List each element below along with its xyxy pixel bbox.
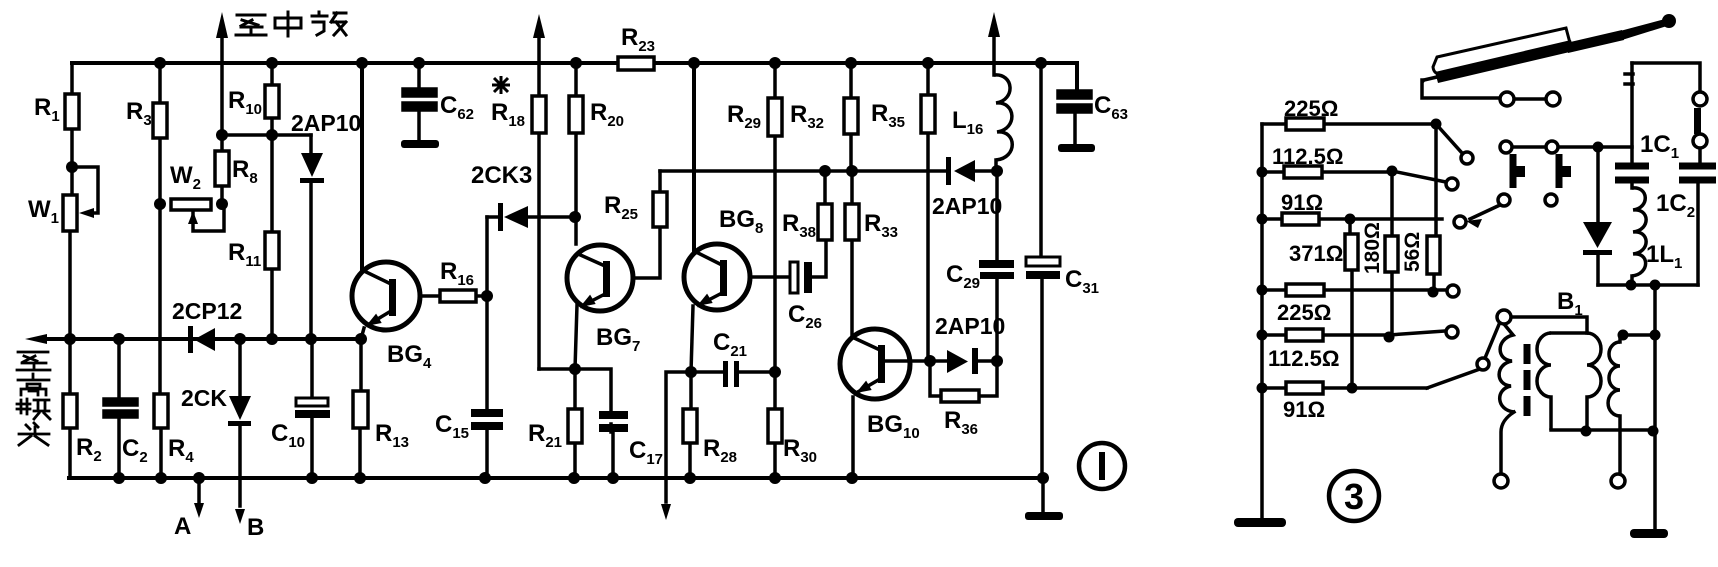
wire attenuator row2 (1262, 171, 1446, 182)
svg-text:225Ω: 225Ω (1277, 300, 1331, 325)
svg-text:B: B (247, 514, 264, 541)
wire 371ohm branch x=1352 (1350, 219, 1352, 388)
wire R1-W1-R2 branch x=71 (70, 63, 72, 478)
junction dots bias line (819, 165, 831, 177)
svg-text:2CP12: 2CP12 (172, 298, 242, 324)
arrow to RF head (mid left) (25, 334, 47, 344)
wire BG8 base to C26 (752, 275, 790, 279)
transformer B1 core (1524, 344, 1531, 416)
capacitor C17 (599, 411, 628, 432)
chinese text: to IF amplifier (zhi zhong fang) (236, 15, 266, 35)
antenna rod mid segment (1566, 30, 1624, 53)
wire BG10 base lead (886, 359, 930, 363)
resistor 225ohm row1 (1286, 118, 1324, 130)
inductor L16 (994, 75, 1012, 160)
wire tank bottom y=285 (1598, 283, 1698, 287)
resistor R29 (768, 98, 782, 136)
arrowhead W2 wiper (188, 211, 198, 224)
resistor R36 (941, 390, 979, 402)
resistor 91ohm row6 (1286, 382, 1323, 394)
wire attenuator row5 (1262, 331, 1445, 335)
capacitor C63 (1058, 91, 1091, 144)
wire bottom ground rail (69, 476, 1043, 480)
open terminal row1 (1461, 152, 1473, 164)
wire node R10-R11 tap y=135 (222, 133, 311, 137)
resistor R32 (844, 98, 858, 134)
wire R10 R11 chain x=272 (270, 63, 274, 339)
diode 2CK (vertical) (229, 396, 251, 420)
svg-text:91Ω: 91Ω (1281, 190, 1323, 215)
resistor R1 (65, 94, 79, 129)
junction dots R10 tap (216, 129, 228, 141)
wire R33 to BG10 collector x=852 (850, 171, 854, 336)
svg-text:371Ω: 371Ω (1289, 241, 1343, 266)
junction dot diode3 top (1593, 142, 1604, 153)
resistor R10 (265, 85, 279, 118)
wire ground stem right (1041, 478, 1045, 514)
wire 2AP10a diode to C10 branch x=312 (311, 135, 312, 478)
wire R36 parallel loop (930, 361, 997, 396)
transistor BG8 (684, 244, 750, 310)
wire BG7 emitter node y=369 (539, 369, 613, 478)
wire W1 wiper loop (72, 167, 98, 213)
capacitor C21 (723, 361, 739, 387)
capacitor 1C2 (1679, 166, 1716, 180)
open terminal row3 (1454, 216, 1466, 228)
antenna rod tip segment (1620, 19, 1667, 40)
ground main rail right (1025, 512, 1063, 520)
resistor 180ohm (vertical) (1385, 236, 1398, 272)
wire C31 branch x=1042 (1041, 63, 1042, 478)
potentiometer W2 (171, 199, 211, 210)
junction dot R16-C15 (481, 290, 493, 302)
open terminal row2 (1446, 178, 1458, 190)
resistor R33 (845, 204, 859, 240)
svg-text:2AP10: 2AP10 (935, 313, 1005, 339)
open terminal B1 primary bottom (1494, 474, 1508, 488)
transistor BG4 (352, 262, 420, 330)
wire BG10 collector node to 2AP10b (930, 359, 997, 363)
resistor R23 (618, 57, 654, 70)
diode 2CK3 (horizontal) (504, 206, 528, 228)
svg-text:2CK: 2CK (181, 385, 227, 411)
svg-text:2AP10: 2AP10 (291, 110, 361, 136)
arrow A (194, 503, 204, 518)
capacitor C2 (104, 339, 137, 478)
wire switch row y=147 to 1C1 (1512, 145, 1632, 149)
arrow above L16 (988, 12, 1000, 37)
wire W2 wiper loop (193, 206, 224, 231)
capacitor C15 (471, 409, 503, 430)
wire R32 branch x=851 (849, 63, 853, 171)
wire C29 branch x=997 (995, 171, 999, 361)
wire B1 primary bottom to terminal (1501, 412, 1514, 474)
open terminal switch row147 b (1546, 141, 1558, 153)
wire 2CK3-R16-C15 branch x=487 (485, 217, 489, 478)
wire attenuator row6 (1262, 386, 1427, 390)
wire 2CK3 horizontal (487, 215, 575, 219)
junction dots attenuator nodes (1345, 119, 1442, 394)
transformer B1 secondary right column (1587, 333, 1601, 430)
wire R35 to BG10 base node x=929 (926, 63, 930, 361)
svg-text:2CK3: 2CK3 (471, 162, 532, 189)
wire 1L1 bottom stem (1630, 184, 1634, 285)
open terminal switch row147 a (1500, 141, 1512, 153)
wire BG4 collector x=362 (360, 63, 364, 270)
wire 56ohm branch x=1434 (1434, 124, 1436, 292)
wire mid AGC rail (to RF head) (45, 337, 361, 341)
wire diode3 branch x=1598 (1596, 147, 1600, 285)
antenna rod thick segment (1435, 40, 1574, 83)
potentiometer W1 (63, 195, 77, 231)
svg-text:A: A (174, 513, 191, 540)
diode 2CP12 (on AGC rail) (194, 328, 215, 351)
ground left bus (1234, 518, 1286, 527)
diode 2AP10c (across R36) (947, 350, 968, 373)
resistor 371ohm (vertical) (1345, 234, 1358, 270)
wire B1 secondary bottom bar (1551, 428, 1655, 432)
wire R28 branch (690, 372, 691, 478)
resistor 91ohm row3 (1282, 213, 1319, 225)
svg-text:2AP10: 2AP10 (932, 193, 1002, 219)
wire BG7 base to R25 (635, 227, 660, 278)
resistor R16 (440, 290, 476, 302)
wire to-IF arrow stem and R8 branch x=222 (220, 34, 224, 204)
transistor BG7 (567, 245, 633, 311)
resistor R28 (683, 409, 697, 443)
diode 3 (band switch) (1583, 222, 1612, 248)
open terminal antenna a (1500, 92, 1514, 106)
capacitor C10 (polarized) (295, 410, 330, 418)
svg-text:112.5Ω: 112.5Ω (1272, 144, 1343, 169)
schematic number 1 (1079, 443, 1125, 489)
open terminal switch row200 a (1498, 194, 1510, 206)
wire attenuator row1 (1262, 122, 1436, 126)
jack bar (1694, 108, 1701, 134)
diode 2AP10b (on bias line near L16) (954, 160, 975, 182)
resistor R11 (265, 232, 279, 269)
wire R3-W2-R4 branch x=160 (160, 63, 161, 478)
capacitor C26 (polarized) (804, 262, 812, 293)
junction dots B1 (1581, 330, 1661, 437)
wire left bus of attenuator (1260, 124, 1264, 518)
open terminal jack top (1693, 92, 1707, 106)
wire R21 branch (573, 369, 577, 478)
wire BG7 emitter lead (575, 305, 577, 369)
diode 2AP10a (vertical, near R10) (301, 153, 323, 177)
arrow to IF amp (top left) (216, 12, 228, 38)
resistor R38 (818, 204, 832, 240)
open terminal antenna b (1546, 92, 1560, 106)
open terminal row5 (1446, 326, 1458, 338)
wire jack to 1C2 (1698, 148, 1702, 166)
wire BG4 emitter to mid rail (361, 328, 364, 339)
junction dots W2 ends (154, 198, 166, 210)
junction dots left bus (1257, 167, 1268, 394)
open terminal jack bottom (1693, 134, 1707, 148)
wire B1 pole to primary-top bar (1511, 317, 1587, 333)
wire antenna feed (1422, 80, 1500, 98)
wire top supply rail (72, 63, 1077, 92)
wire R38 top (823, 171, 827, 204)
wire switch lever row1 (1436, 124, 1462, 153)
schematic number 3 (1329, 471, 1379, 521)
wire R29-R30 branch x=775 (773, 63, 777, 478)
resistor 56ohm (vertical) (1427, 236, 1440, 274)
wire 180ohm branch x=1392 (1390, 171, 1394, 337)
open terminal switch row200 b (1545, 194, 1557, 206)
resistor R18 (532, 96, 546, 133)
transformer B1 secondary left column (1537, 333, 1551, 430)
junction dot BG7 emitter (569, 363, 581, 375)
wire 2CK branch x=240 (238, 339, 242, 506)
junction dots mid rail (64, 333, 76, 345)
resistor 225ohm row4 (1286, 284, 1324, 296)
wire C26 to R38 (812, 240, 826, 277)
asterisk mark above R18 (492, 76, 510, 94)
antenna tip (1662, 14, 1676, 28)
inductor 1L1 (1632, 188, 1646, 276)
ground below C62 (401, 140, 439, 148)
wire BG4 base to R16 (397, 294, 487, 298)
open terminal row4 (1447, 285, 1459, 297)
wire B1 wiper chain (1427, 322, 1500, 388)
resistor R3 (153, 103, 167, 138)
svg-text:112.5Ω: 112.5Ω (1268, 346, 1339, 371)
ground right bus (1630, 529, 1668, 538)
wire output tap arrow x=666 (666, 372, 691, 502)
antenna base bracket (1422, 77, 1437, 82)
open terminal B1 tertiary bottom (1611, 474, 1625, 488)
arrow B (235, 509, 245, 524)
arrowhead wiper row3 (1466, 219, 1482, 228)
wire B1 secondary top bar (1551, 331, 1587, 335)
resistor R20 (569, 96, 583, 133)
wire R18 branch x=539 (537, 36, 541, 369)
svg-text:180Ω: 180Ω (1361, 222, 1384, 274)
resistor R35 (921, 95, 935, 133)
junction dots top rail (154, 57, 166, 69)
wire L16 branch x=995 (994, 37, 996, 171)
wire BG8 collector x=694 (692, 63, 696, 250)
junction dot node R1-W1 (66, 161, 78, 173)
wire BG8 emitter lead (691, 306, 693, 372)
wire right bus x=1655 (1653, 285, 1657, 529)
arrow above R18 (533, 14, 545, 38)
wire antenna link between terminals (1514, 97, 1546, 101)
wire band switch wiper arm row3 (1470, 205, 1500, 219)
capacitor C62 (403, 63, 436, 140)
resistor R8 (215, 151, 229, 186)
wire C21 link (691, 370, 775, 374)
resistor R2 (63, 394, 77, 428)
chinese text: to RF head (zhi gao pin tou), vertical (17, 352, 50, 445)
wire A tap (197, 478, 201, 504)
capacitor C29 (979, 260, 1014, 279)
wire 1C1 top branch x=1632 (1625, 63, 1633, 166)
wire R13 branch x=360 (360, 339, 361, 478)
svg-text:225Ω: 225Ω (1284, 96, 1338, 121)
wire bias line y=171 (660, 169, 997, 173)
switch bridge bar a (1510, 154, 1517, 188)
resistor R25 (653, 192, 667, 227)
transistor BG10 (840, 329, 910, 399)
transformer B1 tertiary winding (1608, 342, 1620, 416)
junction dots tank bottom (1626, 280, 1661, 291)
junction dot 2CK3-R20 (569, 211, 581, 223)
wire B1 tertiary bottom to terminal (1618, 416, 1622, 474)
arrowhead W1 wiper (79, 208, 94, 218)
capacitor 1C1 (1615, 166, 1649, 180)
wire 1C2 down to bottom (1696, 184, 1700, 285)
open terminal B1 pole (1497, 310, 1511, 324)
junction dots BG10 collector node (924, 355, 936, 367)
capacitor C31 (polarized) (1026, 271, 1060, 279)
svg-text:91Ω: 91Ω (1283, 397, 1325, 422)
arrow output tap (661, 504, 671, 520)
junction dots bottom rail (113, 472, 125, 484)
resistor R13 (353, 391, 368, 428)
wire B1 tertiary top (1620, 335, 1655, 342)
junction dot BG8 emitter (685, 366, 697, 378)
resistor R30 (768, 409, 782, 443)
wire attenuator row3 (1262, 217, 1442, 221)
resistor R4 (154, 394, 168, 428)
resistor R21 (568, 409, 582, 443)
antenna rod outline segment (1433, 28, 1570, 73)
open terminal B1 wiper mid (1477, 358, 1489, 370)
wire BG10 emitter x=853 (851, 397, 855, 478)
resistor 112.5ohm row5 (1286, 329, 1323, 341)
svg-text:3: 3 (1344, 476, 1364, 517)
svg-text:56Ω: 56Ω (1401, 232, 1424, 272)
switch bridge bar b (1556, 154, 1563, 188)
junction dot C21-R29 (769, 366, 781, 378)
transformer B1 primary winding (1499, 324, 1514, 412)
wire R20 to BG7 collector x=576 (574, 63, 578, 244)
wire R25 top to bias line (658, 171, 662, 192)
ground below C63 (1058, 144, 1095, 152)
wire attenuator row4 (1262, 288, 1447, 292)
resistor 112.5ohm row2 (1284, 166, 1322, 178)
wire jack top (1632, 63, 1700, 92)
